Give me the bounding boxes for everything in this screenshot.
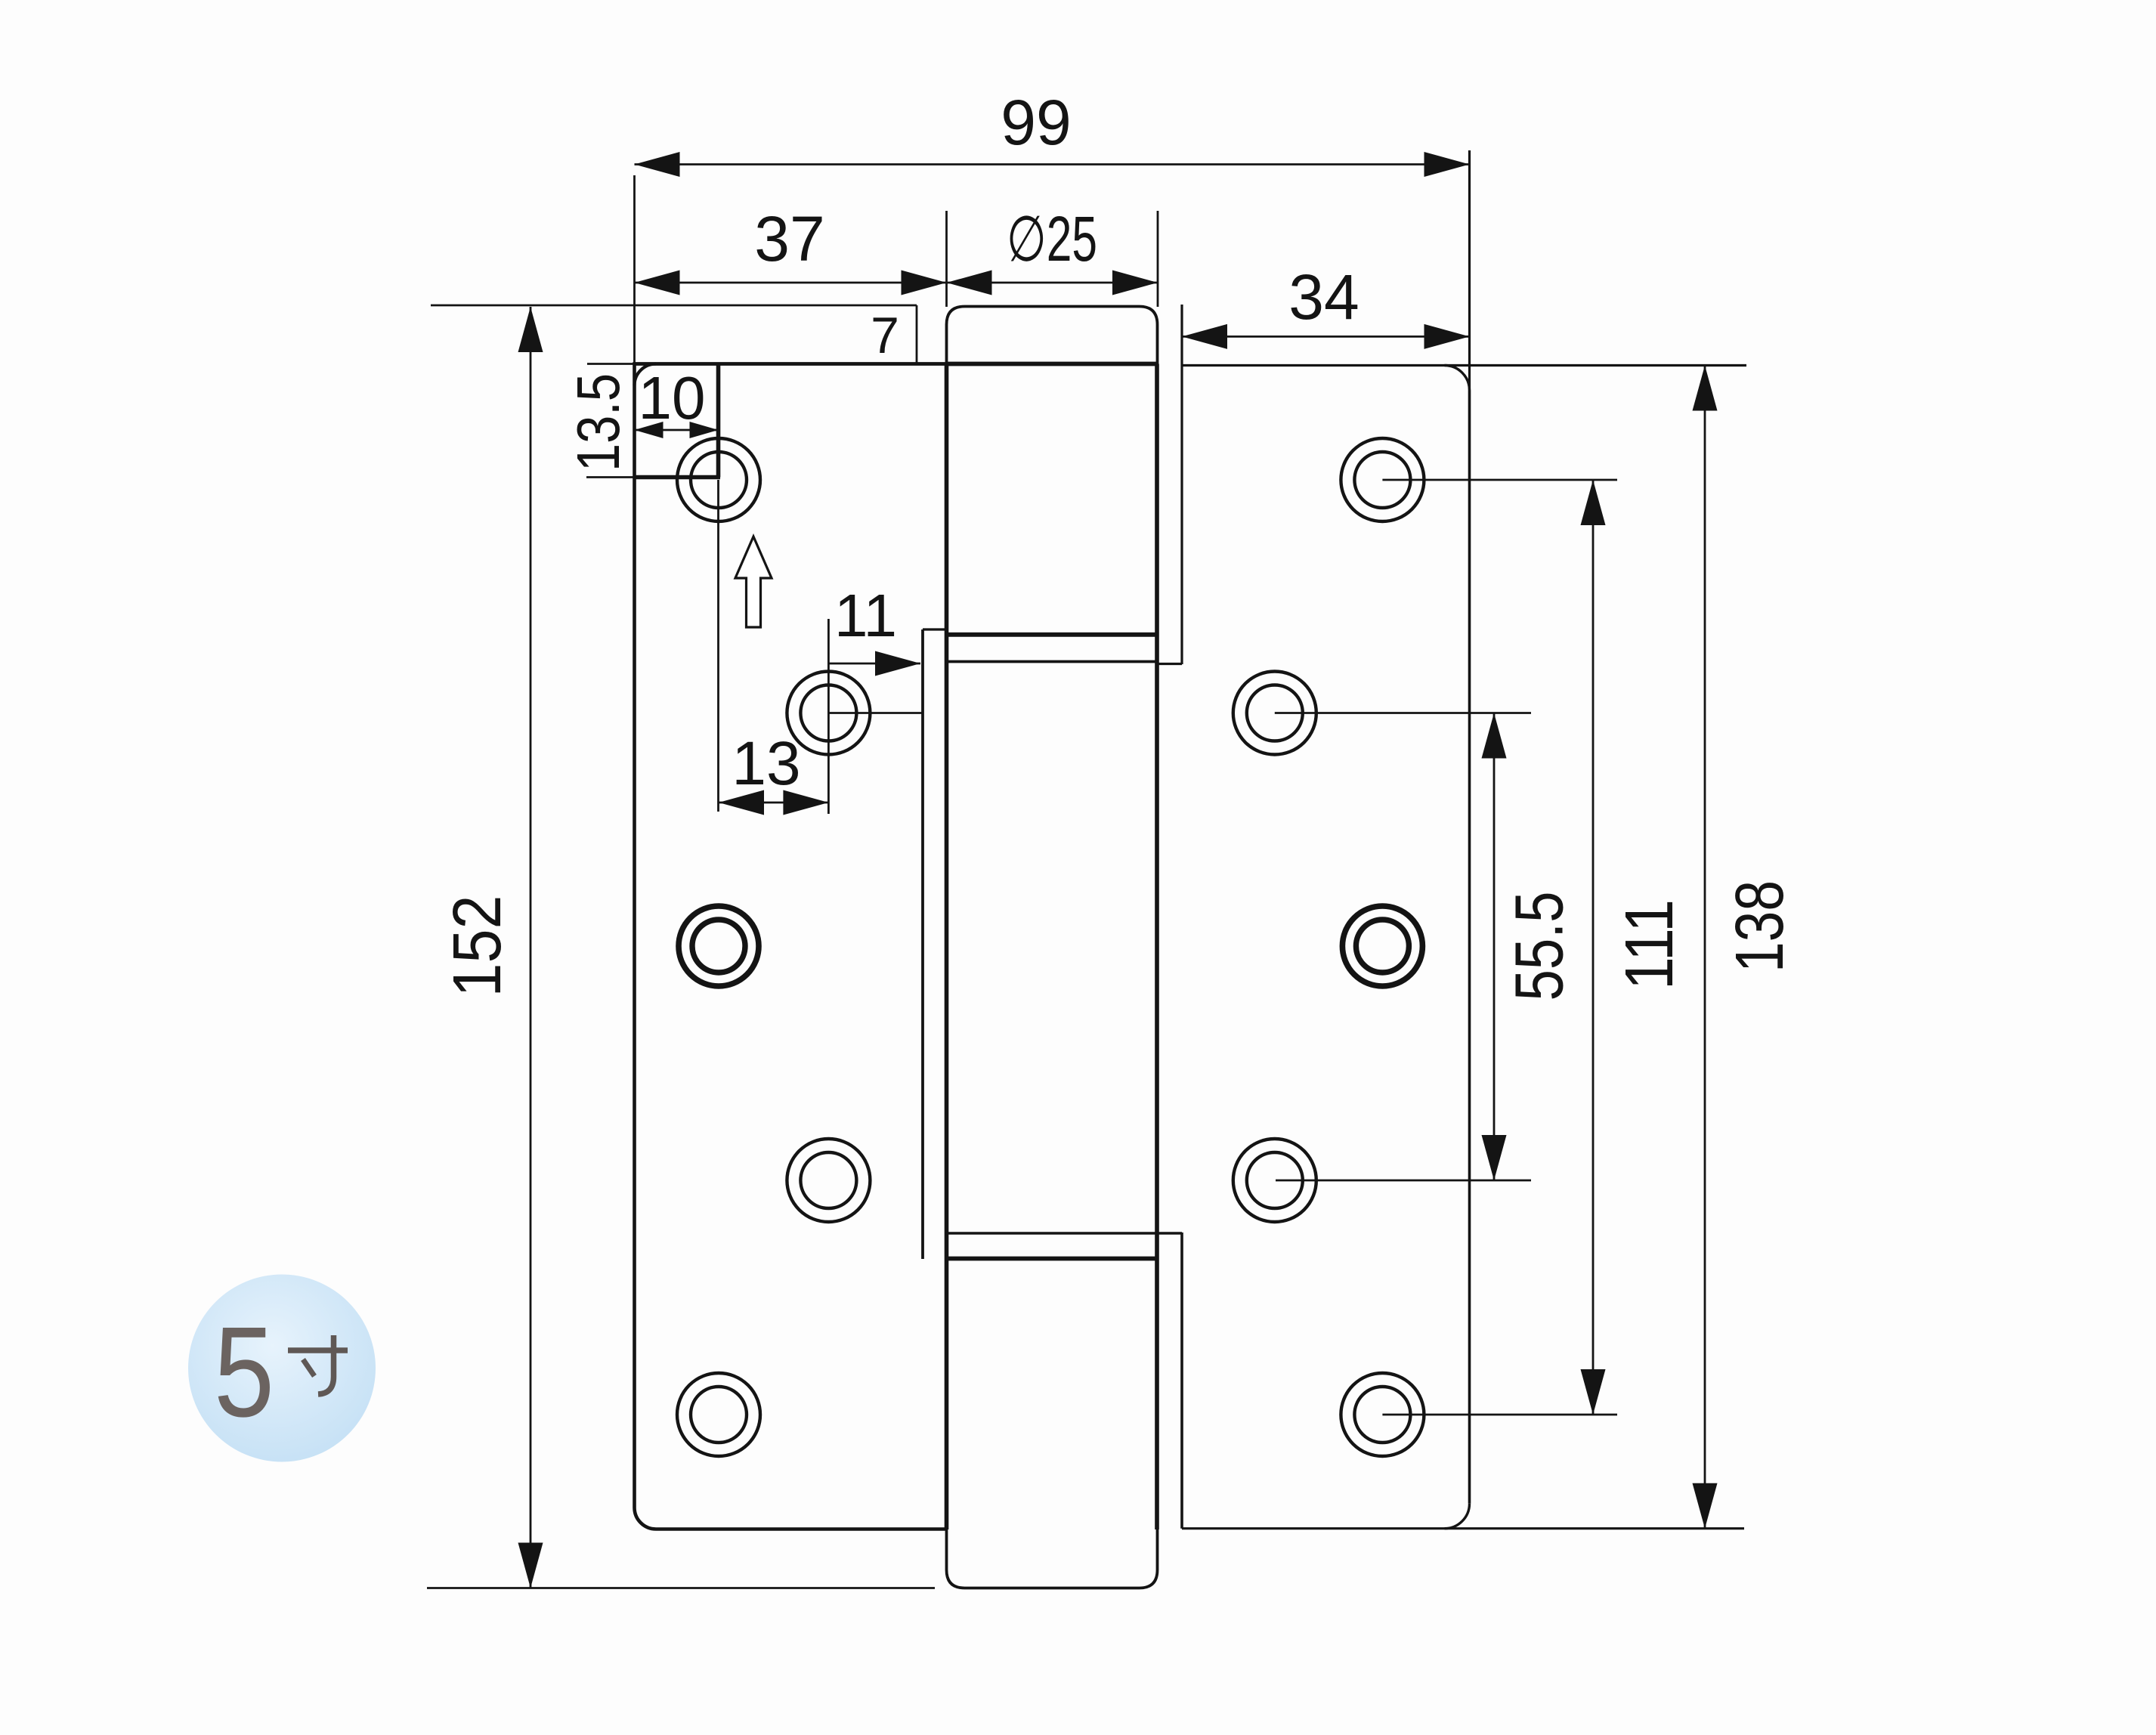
- svg-text:13: 13: [732, 729, 800, 798]
- svg-text:99: 99: [1001, 87, 1071, 158]
- svg-text:∅25: ∅25: [1007, 203, 1097, 274]
- svg-text:5: 5: [214, 1300, 274, 1444]
- svg-text:13.5: 13.5: [565, 373, 632, 472]
- svg-text:111: 111: [1612, 899, 1687, 990]
- svg-text:152: 152: [440, 895, 515, 997]
- svg-text:7: 7: [871, 307, 899, 364]
- svg-text:10: 10: [639, 364, 706, 431]
- svg-text:11: 11: [834, 582, 897, 649]
- svg-text:37: 37: [754, 203, 824, 274]
- svg-text:34: 34: [1288, 261, 1359, 332]
- svg-text:55.5: 55.5: [1502, 892, 1578, 1001]
- svg-text:138: 138: [1722, 880, 1798, 973]
